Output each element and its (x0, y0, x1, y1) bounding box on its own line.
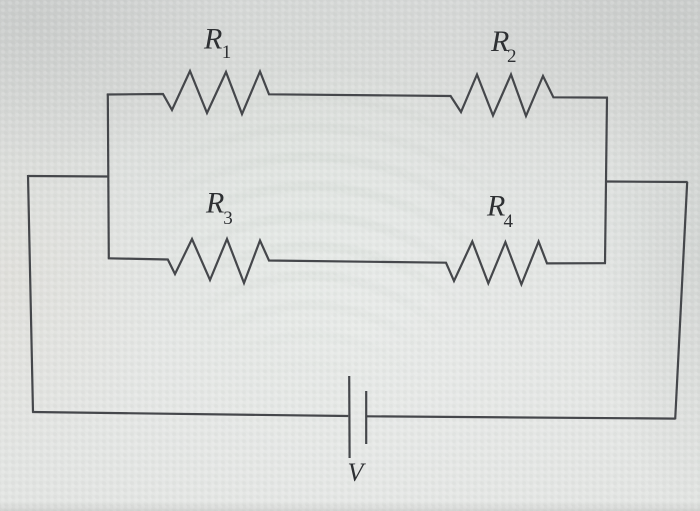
svg-text:R: R (486, 190, 505, 223)
svg-text:2: 2 (507, 46, 517, 67)
svg-text:R: R (205, 186, 224, 219)
svg-text:1: 1 (222, 42, 232, 63)
svg-text:V: V (348, 458, 367, 487)
svg-text:R: R (203, 22, 222, 55)
svg-text:3: 3 (223, 208, 233, 229)
svg-text:4: 4 (504, 211, 514, 232)
